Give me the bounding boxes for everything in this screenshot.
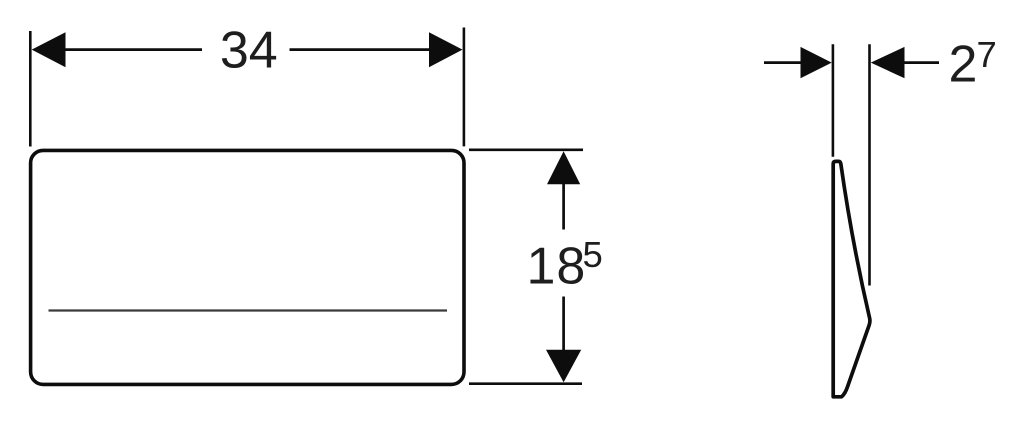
arrowhead 2-7 pointing left: [871, 47, 905, 78]
dimension line 18-5 lower segment: [562, 297, 565, 351]
dimension line 2-7 left segment: [764, 61, 802, 64]
front view plate outline: [31, 150, 464, 384]
plate split line: [49, 309, 448, 311]
dimension line 18-5 upper segment: [562, 184, 565, 230]
svg-text:7: 7: [977, 34, 997, 75]
extension line right of dimension 2-7: [868, 44, 871, 285]
extension line right of dimension 34: [463, 28, 466, 147]
arrowhead 2-7 pointing right: [801, 47, 832, 78]
svg-text:34: 34: [220, 22, 278, 80]
dimension line 34 right segment: [290, 48, 432, 51]
side profile outline: [833, 161, 870, 396]
svg-text:5: 5: [583, 234, 603, 275]
extension line left of dimension 2-7: [832, 44, 835, 157]
arrowhead 18-5 bottom: [546, 350, 581, 383]
dimension line 2-7 right segment: [904, 61, 939, 64]
svg-text:18: 18: [527, 238, 587, 296]
extension line bottom of dimension 18-5: [469, 382, 582, 385]
extension line left of dimension 34: [29, 31, 32, 147]
arrowhead 34 left: [32, 32, 66, 67]
svg-text:2: 2: [949, 35, 978, 93]
arrowhead 18-5 top: [547, 151, 580, 184]
dimension line 34 left segment: [63, 48, 202, 51]
arrowhead 34 right: [429, 32, 463, 67]
extension line top of dimension 18-5: [469, 149, 583, 152]
